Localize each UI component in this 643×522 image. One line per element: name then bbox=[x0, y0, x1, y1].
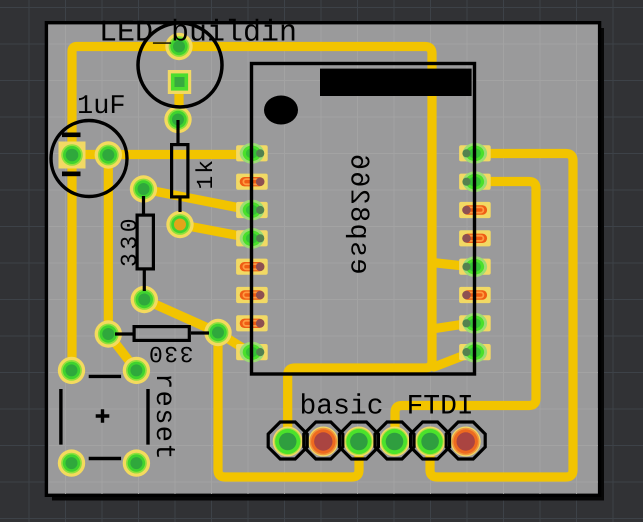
resistor R2 330 vertical body bbox=[137, 196, 153, 291]
wire 330h left pad to reset TR pad bbox=[108, 334, 136, 370]
wire LED square pad to R1 top bbox=[174, 85, 183, 120]
PCB board bbox=[46, 23, 599, 496]
pad LED top bbox=[165, 33, 192, 60]
svg-text:esp8266: esp8266 bbox=[343, 153, 373, 275]
pad U1 pin 11 bbox=[459, 202, 491, 218]
pad J1 pin 3 bbox=[344, 427, 374, 457]
wire module R2 to FTDI pad4 bbox=[395, 182, 536, 442]
pad U1 pin 4 bbox=[236, 228, 268, 249]
pad R2 top bbox=[130, 175, 157, 202]
svg-text:1uF: 1uF bbox=[77, 92, 126, 122]
pad J1 pin 1 bbox=[273, 427, 303, 457]
IC U1 left pad column bbox=[236, 143, 268, 363]
pad LED bottom square bbox=[168, 70, 191, 94]
PCB board shadow bbox=[52, 28, 604, 501]
wire branch to module pad R5 bbox=[432, 263, 468, 267]
pad U1 pin 6 bbox=[236, 287, 268, 303]
wire 330h right pad to module pad L8 bbox=[218, 333, 245, 350]
wire cap right pad down to 330h left pad bbox=[104, 155, 113, 334]
svg-text:1k: 1k bbox=[193, 158, 219, 190]
pad C1 left square bbox=[59, 142, 86, 169]
wire module R1 to FTDI pad5 bbox=[430, 154, 573, 478]
svg-text:FTDI: FTDI bbox=[407, 392, 474, 423]
pad J1 pin 4 bbox=[380, 427, 410, 457]
LED D1 outline bbox=[138, 23, 222, 107]
pad R3 right bbox=[204, 319, 231, 346]
pad U1 pin 12 bbox=[459, 230, 491, 246]
IC U1 right pad column bbox=[459, 143, 491, 363]
pad U1 pin 1 bbox=[236, 143, 268, 164]
pad R1 bottom bbox=[166, 211, 193, 238]
wire top rail into module down to FTDI pad1 bbox=[179, 47, 432, 442]
connector J1 FTDI octagons bbox=[268, 422, 485, 459]
pad U1 pin 2 bbox=[236, 174, 268, 190]
pad U1 pin 5 bbox=[236, 259, 268, 275]
pad reset TL bbox=[58, 357, 85, 384]
pad C1 right bbox=[95, 141, 122, 168]
pad R1 top bbox=[164, 106, 191, 133]
resistor R3 330 horizontal body bbox=[115, 327, 209, 341]
wire cap row to module pad L1 bbox=[72, 150, 243, 159]
pad U1 pin 15 bbox=[459, 313, 491, 334]
pad U1 pin 9 bbox=[459, 143, 491, 164]
wire branch to module pad R8 bbox=[434, 354, 468, 367]
wire 330h right pad down to FTDI pad3 bbox=[218, 333, 359, 478]
pad J1 pin 6 bbox=[451, 427, 481, 457]
traces bbox=[72, 47, 573, 478]
IC U1 antenna bar bbox=[320, 69, 472, 96]
wire branch to module pad R7 bbox=[432, 324, 468, 330]
IC U1 pin-1 dot bbox=[264, 96, 298, 125]
svg-text:LED_buildin: LED_buildin bbox=[99, 17, 297, 51]
svg-text:reset: reset bbox=[148, 373, 178, 461]
svg-text:330: 330 bbox=[117, 215, 143, 267]
pad U1 pin 16 bbox=[459, 342, 491, 363]
wire 1k bottom pad to module pad L4 bbox=[180, 225, 245, 237]
svg-text:330: 330 bbox=[147, 340, 193, 366]
pad J1 pin 5 bbox=[415, 427, 445, 457]
wire LED to left rail down to reset bbox=[72, 47, 179, 371]
IC U1 esp8266 module outline bbox=[252, 64, 475, 375]
svg-text:basic: basic bbox=[300, 392, 384, 423]
capacitor C1 polarity marks bbox=[62, 133, 81, 177]
resistor R1 1k body bbox=[172, 120, 188, 212]
wire 330v bottom to 330h right pad bbox=[144, 300, 218, 333]
pad U1 pin 3 bbox=[236, 200, 268, 221]
pad R3 left bbox=[95, 320, 122, 347]
pad U1 pin 14 bbox=[459, 287, 491, 303]
pad reset BL bbox=[58, 449, 85, 476]
pad J1 pin 2 bbox=[308, 427, 338, 457]
connector J1 pad row bbox=[273, 427, 481, 457]
pad U1 pin 10 bbox=[459, 171, 491, 192]
pad reset TR bbox=[123, 357, 150, 384]
pad U1 pin 7 bbox=[236, 315, 268, 331]
wire 330v top pad to module pad L3 bbox=[144, 189, 245, 209]
pad U1 pin 8 bbox=[236, 342, 268, 363]
capacitor C1 outline bbox=[51, 121, 127, 197]
switch S1 reset outline bbox=[61, 376, 148, 458]
pad reset BR bbox=[123, 449, 150, 476]
pad U1 pin 13 bbox=[459, 256, 491, 277]
pad R2 bottom bbox=[131, 286, 158, 313]
